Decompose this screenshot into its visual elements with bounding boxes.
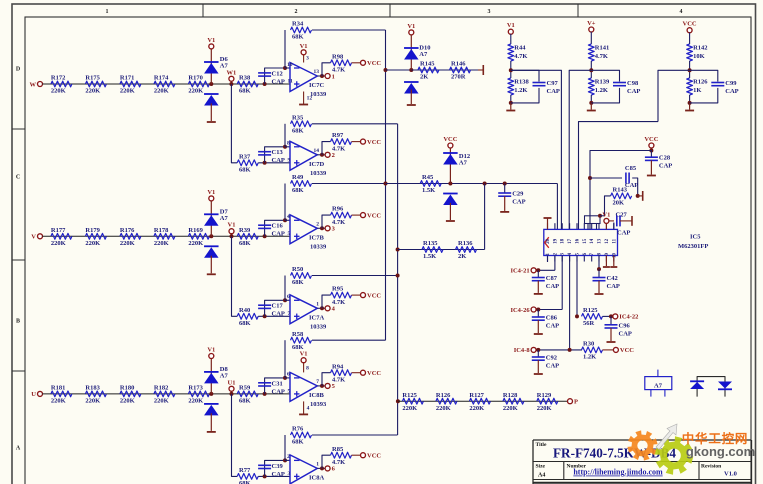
svg-text:gkong.com: gkong.com <box>686 444 755 459</box>
capacitor C87 <box>532 277 545 279</box>
wire C87 stem <box>537 270 539 277</box>
svg-text:C: C <box>16 175 20 181</box>
svg-text:VCC: VCC <box>367 212 381 219</box>
svg-text:R38: R38 <box>239 75 251 82</box>
logo arrow <box>656 424 677 450</box>
port VCC <box>361 453 366 458</box>
svg-text:R126: R126 <box>436 392 451 399</box>
wire feedback left IC7B <box>284 184 286 221</box>
svg-text:VCC: VCC <box>367 292 381 299</box>
zone tick top 1 <box>202 4 204 17</box>
svg-text:V+: V+ <box>587 20 596 27</box>
svg-text:U1: U1 <box>228 379 236 386</box>
port VCC <box>448 143 453 148</box>
wire R44 junction to IC5 <box>511 70 562 229</box>
resistor R176 <box>120 233 141 239</box>
junction R44 node <box>509 68 513 72</box>
svg-text:R178: R178 <box>154 227 169 234</box>
wire C42 stem <box>598 269 600 277</box>
wire R146 stub <box>478 69 483 71</box>
wire V1 stub <box>231 234 233 237</box>
wire output IC8B <box>317 385 325 387</box>
resistor R128 <box>503 398 524 404</box>
junction out node IC7B <box>320 226 324 230</box>
wire R45 row to IC5 <box>556 184 558 230</box>
svg-text:220K: 220K <box>120 240 135 247</box>
svg-text:R143: R143 <box>613 187 628 194</box>
svg-text:R59: R59 <box>239 385 251 392</box>
terminal stub R143 <box>642 191 644 201</box>
junction IC8A minus node <box>283 458 287 462</box>
wire feedback left IC7A <box>284 276 286 301</box>
resistor R97 <box>331 139 352 145</box>
svg-text:1.2K: 1.2K <box>514 87 527 94</box>
port 4 <box>325 306 330 311</box>
svg-text:56R: 56R <box>583 320 595 327</box>
svg-text:2: 2 <box>287 454 290 460</box>
svg-text:CAP: CAP <box>725 88 738 95</box>
wire IC4-26 row <box>536 309 562 311</box>
svg-text:R125: R125 <box>402 392 417 399</box>
resistor R177 <box>51 233 72 239</box>
capacitor C42 <box>593 277 606 279</box>
resistor R94 <box>331 370 352 376</box>
wire W1 stub <box>230 81 232 84</box>
svg-text:R77: R77 <box>239 467 251 474</box>
svg-text:11: 11 <box>612 238 617 243</box>
svg-text:220K: 220K <box>51 240 66 247</box>
diode D6b <box>204 93 219 95</box>
wire C99 loop <box>690 70 718 81</box>
svg-text:R177: R177 <box>51 227 66 234</box>
wire J1 stub b <box>596 224 598 230</box>
resistor R34 <box>291 27 312 33</box>
svg-text:R44: R44 <box>514 44 526 51</box>
resistor R178 <box>154 233 175 239</box>
power pin 8 IC8B <box>303 363 305 373</box>
svg-text:R129: R129 <box>537 392 552 399</box>
capacitor C29 <box>498 192 511 194</box>
power pin 3 IC7C <box>303 55 305 63</box>
resistor R138 <box>508 78 514 95</box>
resistor R172 <box>51 81 72 87</box>
junction IC7D minus node <box>283 145 287 149</box>
junction W1 node <box>229 82 233 86</box>
svg-text:68K: 68K <box>292 279 304 286</box>
wire pin2 drop <box>554 256 556 271</box>
ground IC5 pin10 <box>613 256 615 267</box>
junction IC4-8 node <box>536 348 540 352</box>
svg-text:R141: R141 <box>595 44 609 51</box>
svg-text:220K: 220K <box>188 398 203 405</box>
svg-text:1.2K: 1.2K <box>583 354 596 361</box>
ground R126 <box>689 103 691 110</box>
svg-text:1.5K: 1.5K <box>423 253 436 260</box>
ground C86 <box>537 320 539 333</box>
resistor R39 <box>237 233 258 239</box>
wire minus IC7C <box>285 67 290 69</box>
svg-text:R183: R183 <box>85 385 100 392</box>
svg-text:4: 4 <box>287 214 290 220</box>
ground D10 <box>410 89 412 104</box>
resistor R85 <box>331 452 352 458</box>
wire VCC stub <box>650 148 652 151</box>
svg-text:CAP: CAP <box>272 388 285 395</box>
svg-text:68K: 68K <box>239 480 251 484</box>
svg-text:C96: C96 <box>619 322 631 329</box>
svg-text:2K: 2K <box>458 253 466 260</box>
junction V clamp node <box>209 234 213 238</box>
connector J1 outline <box>585 216 601 224</box>
wire feedback right IC8A <box>312 434 398 436</box>
svg-text:13: 13 <box>314 69 320 75</box>
svg-text:220K: 220K <box>120 88 135 95</box>
resistor R170 <box>188 81 209 87</box>
svg-text:A7: A7 <box>654 383 663 390</box>
wire C98 loop <box>591 70 619 81</box>
op-amp IC7C <box>290 63 317 92</box>
svg-text:3: 3 <box>306 56 309 62</box>
diode D10b <box>404 81 419 83</box>
svg-text:2: 2 <box>332 152 335 159</box>
resistor R143 <box>611 193 632 199</box>
svg-text:R125: R125 <box>583 307 598 314</box>
junction W clamp node <box>209 82 213 86</box>
svg-text:R175: R175 <box>85 75 100 82</box>
wire net-B vertical <box>397 124 399 435</box>
op-amp IC8B <box>290 372 317 401</box>
wire P chain <box>398 400 568 402</box>
svg-text:B: B <box>16 319 20 325</box>
op-amp IC7B <box>290 215 317 244</box>
port V1 <box>409 30 414 35</box>
junction out node IC7A <box>320 306 324 310</box>
svg-text:1: 1 <box>316 462 319 468</box>
svg-text:R139: R139 <box>595 78 610 85</box>
svg-text:R40: R40 <box>239 307 250 314</box>
svg-text:14: 14 <box>314 148 320 154</box>
svg-text:V1: V1 <box>228 222 236 229</box>
ground C87 <box>537 281 539 293</box>
svg-text:IC4-22: IC4-22 <box>619 314 638 321</box>
svg-text:R94: R94 <box>332 363 344 370</box>
capacitor C99 <box>711 82 724 84</box>
wire pullup IC7B <box>322 215 331 228</box>
wire VCC stem D12 <box>449 148 451 184</box>
junction R126 bottom node <box>688 101 692 105</box>
svg-text:10: 10 <box>612 253 617 259</box>
svg-text:VCC: VCC <box>367 60 381 67</box>
wire output IC7B <box>317 227 325 229</box>
resistor R174 <box>154 81 175 87</box>
svg-text:220K: 220K <box>469 405 484 412</box>
svg-text:VCC: VCC <box>367 139 381 146</box>
junction IC4-21 node <box>536 268 540 272</box>
wire feedback right IC7C <box>312 29 386 31</box>
svg-text:10339: 10339 <box>310 243 327 250</box>
junction net-A D10 <box>384 68 388 72</box>
ground W <box>210 103 212 121</box>
svg-text:14: 14 <box>590 238 595 244</box>
wire R142 junction leg <box>658 70 690 121</box>
svg-text:220K: 220K <box>154 398 169 405</box>
svg-text:12: 12 <box>605 238 610 244</box>
diode D10 <box>404 47 419 49</box>
svg-text:IC4-26: IC4-26 <box>510 307 530 314</box>
wire C97 loop <box>511 70 539 81</box>
svg-text:IC7D: IC7D <box>309 161 324 168</box>
resistor R77 <box>237 474 258 480</box>
resistor R126 <box>436 398 457 404</box>
junction out node IC8A <box>320 466 324 470</box>
port VCC <box>361 60 366 65</box>
op-amp IC7A <box>290 295 317 324</box>
svg-text:R58: R58 <box>292 331 304 338</box>
junction C29 node <box>503 182 507 186</box>
svg-text:R95: R95 <box>332 286 344 293</box>
wire J1 stub a <box>587 224 589 230</box>
svg-text:5: 5 <box>288 231 291 237</box>
wire pullup IC7D <box>322 142 331 155</box>
junction out node IC7D <box>320 153 324 157</box>
ground IC5 pin9 <box>605 256 607 267</box>
svg-text:68K: 68K <box>239 320 251 327</box>
svg-text:4.7K: 4.7K <box>514 53 527 60</box>
svg-text:4.7K: 4.7K <box>332 299 345 306</box>
wire W row <box>42 83 290 85</box>
wire R145 row <box>411 69 478 71</box>
ground C29 <box>504 196 506 211</box>
diode D8 <box>204 371 219 373</box>
port 2 <box>325 152 330 157</box>
svg-text:6: 6 <box>287 372 290 378</box>
junction IC7B minus node <box>283 218 287 222</box>
junction C17 node <box>263 314 267 318</box>
resistor R173 <box>188 391 209 397</box>
svg-text:C42: C42 <box>607 275 618 282</box>
svg-text:M62301FP: M62301FP <box>678 243 708 250</box>
resistor R180 <box>120 391 141 397</box>
svg-text:R176: R176 <box>120 227 135 234</box>
svg-text:Title: Title <box>536 442 547 448</box>
port U <box>38 391 43 396</box>
svg-text:220K: 220K <box>154 240 169 247</box>
svg-text:7: 7 <box>316 379 319 385</box>
wire C86 stem <box>537 310 539 318</box>
port V1 <box>209 196 214 201</box>
svg-text:D: D <box>16 67 21 73</box>
wire C42 drop <box>598 256 600 270</box>
svg-text:R173: R173 <box>188 385 203 392</box>
svg-text:R182: R182 <box>154 385 168 392</box>
svg-text:C92: C92 <box>546 355 557 362</box>
resistor R45 <box>420 181 441 187</box>
svg-text:220K: 220K <box>120 398 135 405</box>
svg-text:8: 8 <box>306 365 309 371</box>
capacitor C16 <box>258 224 271 226</box>
wire feedback right IC7D <box>312 123 398 125</box>
ground R138 <box>510 103 512 110</box>
svg-text:C97: C97 <box>547 80 559 87</box>
wire VCC run <box>590 151 651 230</box>
port V1 <box>209 44 214 49</box>
svg-text:R171: R171 <box>120 75 134 82</box>
svg-text:13: 13 <box>598 238 603 244</box>
spare diode right <box>718 382 732 389</box>
port VCC <box>649 143 654 148</box>
svg-text:V1.0: V1.0 <box>724 471 737 478</box>
wire C27 row <box>609 220 614 222</box>
svg-text:A7: A7 <box>459 160 468 167</box>
port V1 <box>301 358 306 363</box>
svg-text:1K: 1K <box>693 87 701 94</box>
wire pullup vcc IC8B <box>352 372 361 374</box>
svg-text:A7: A7 <box>419 51 428 58</box>
diode D7 <box>204 213 219 215</box>
IC U5 pin stubs <box>547 223 549 229</box>
svg-text:CAP: CAP <box>272 471 285 478</box>
port V1 <box>229 229 234 234</box>
svg-text:4.7K: 4.7K <box>332 219 345 226</box>
wire feedback right IC7B <box>312 183 386 185</box>
svg-text:2: 2 <box>316 222 319 228</box>
svg-text:1.2K: 1.2K <box>595 87 608 94</box>
resistor R141 <box>588 44 594 61</box>
svg-text:R145: R145 <box>420 61 435 68</box>
svg-text:V1: V1 <box>300 43 308 50</box>
svg-text:17: 17 <box>568 238 573 244</box>
svg-text:R146: R146 <box>451 61 466 68</box>
resistor R145 <box>418 67 439 73</box>
svg-text:4.7K: 4.7K <box>332 376 345 383</box>
svg-text:R39: R39 <box>239 227 251 234</box>
resistor R76 <box>291 432 312 438</box>
wire feedback left IC8A <box>284 435 286 460</box>
spare diode left <box>690 382 704 389</box>
svg-text:68K: 68K <box>292 187 304 194</box>
junction J1 node <box>598 214 602 218</box>
junction IC8B minus node <box>283 376 287 380</box>
svg-text:CAP: CAP <box>546 323 559 330</box>
svg-text:9: 9 <box>288 157 291 163</box>
port VCC <box>361 370 366 375</box>
svg-text:CAP: CAP <box>659 163 672 170</box>
svg-text:220K: 220K <box>402 405 417 412</box>
resistor R40 <box>237 313 258 319</box>
svg-text:C13: C13 <box>272 149 284 156</box>
wire R77 to IC8A <box>258 475 290 477</box>
resistor R37 <box>237 160 258 166</box>
resistor R183 <box>85 391 106 397</box>
resistor R179 <box>85 233 106 239</box>
resistor R139 <box>588 78 594 95</box>
zone tick top 2 <box>389 4 391 17</box>
svg-text:U: U <box>31 391 36 398</box>
port IC4-22 <box>613 314 618 319</box>
capacitor C98 <box>613 82 626 84</box>
resistor R96 <box>331 212 352 218</box>
wire R141-R139 <box>590 61 592 78</box>
svg-text:VCC: VCC <box>620 347 634 354</box>
wire R40 to IC7A <box>258 315 290 317</box>
wire R44 stem <box>510 34 512 44</box>
junction C42 node <box>597 267 601 271</box>
svg-text:4: 4 <box>680 9 683 15</box>
svg-text:CAP: CAP <box>272 157 285 164</box>
svg-text:VCC: VCC <box>367 453 381 460</box>
wire R141 junction to IC5 <box>569 70 591 229</box>
svg-text:C12: C12 <box>272 70 283 77</box>
resistor R95 <box>331 292 352 298</box>
IC U5 body <box>544 229 618 255</box>
port IC4-26 <box>531 307 536 312</box>
junction C31 node <box>263 392 267 396</box>
wire output IC7A <box>317 307 325 309</box>
svg-text:IC7B: IC7B <box>309 235 324 242</box>
port W1 <box>229 76 234 81</box>
wire feedback left IC8B <box>284 340 286 378</box>
junction net-B R50 <box>396 274 400 278</box>
svg-text:220K: 220K <box>51 398 66 405</box>
svg-text:IC4-8: IC4-8 <box>514 347 531 354</box>
wire U1 stub <box>231 391 233 394</box>
wire feedback right IC8B <box>312 339 386 341</box>
resistor R129 <box>537 398 558 404</box>
svg-text:http://liheming.jimdo.com: http://liheming.jimdo.com <box>573 468 663 477</box>
wire V row <box>42 235 290 237</box>
capacitor C96 <box>605 324 618 326</box>
svg-text:R34: R34 <box>292 21 304 28</box>
svg-text:10K: 10K <box>693 53 705 60</box>
svg-text:220K: 220K <box>188 88 203 95</box>
junction out node IC7C <box>320 74 324 78</box>
resistor R142 <box>687 44 693 61</box>
wire minus IC7A <box>285 299 290 301</box>
svg-text:R96: R96 <box>332 206 344 213</box>
wire feedback left IC7C <box>284 30 286 68</box>
resistor R126 <box>687 78 693 95</box>
svg-text:W1: W1 <box>227 69 237 76</box>
junction C39 node <box>263 474 267 478</box>
resistor R127 <box>469 398 490 404</box>
wire C13 stem <box>265 147 285 163</box>
wire minus IC8B <box>285 377 290 379</box>
port VCC <box>361 139 366 144</box>
wire V1 stem V <box>210 201 212 237</box>
wire U row <box>42 393 290 395</box>
wire V1 C27 drop <box>605 223 607 229</box>
svg-text:2: 2 <box>295 9 298 15</box>
svg-text:C98: C98 <box>627 80 639 87</box>
port 5 <box>325 383 330 388</box>
wire R139 bottom <box>590 95 592 103</box>
op-amp IC7D <box>290 141 317 170</box>
svg-text:VCC: VCC <box>367 370 381 377</box>
svg-text:CAP: CAP <box>272 231 285 238</box>
junction IC7A minus node <box>283 298 287 302</box>
zone tick left 3 <box>12 370 25 372</box>
svg-text:4.7K: 4.7K <box>332 145 345 152</box>
junction R125 left node <box>575 314 579 318</box>
svg-text:R128: R128 <box>503 392 518 399</box>
junction C96 node <box>609 314 613 318</box>
wire pullup vcc IC7D <box>352 141 361 143</box>
ground C28 <box>650 160 652 174</box>
junction R141 node <box>589 68 593 72</box>
junction R136 riser node <box>483 182 487 186</box>
capacitor C17 <box>258 304 271 306</box>
svg-text:CAP: CAP <box>607 283 620 290</box>
